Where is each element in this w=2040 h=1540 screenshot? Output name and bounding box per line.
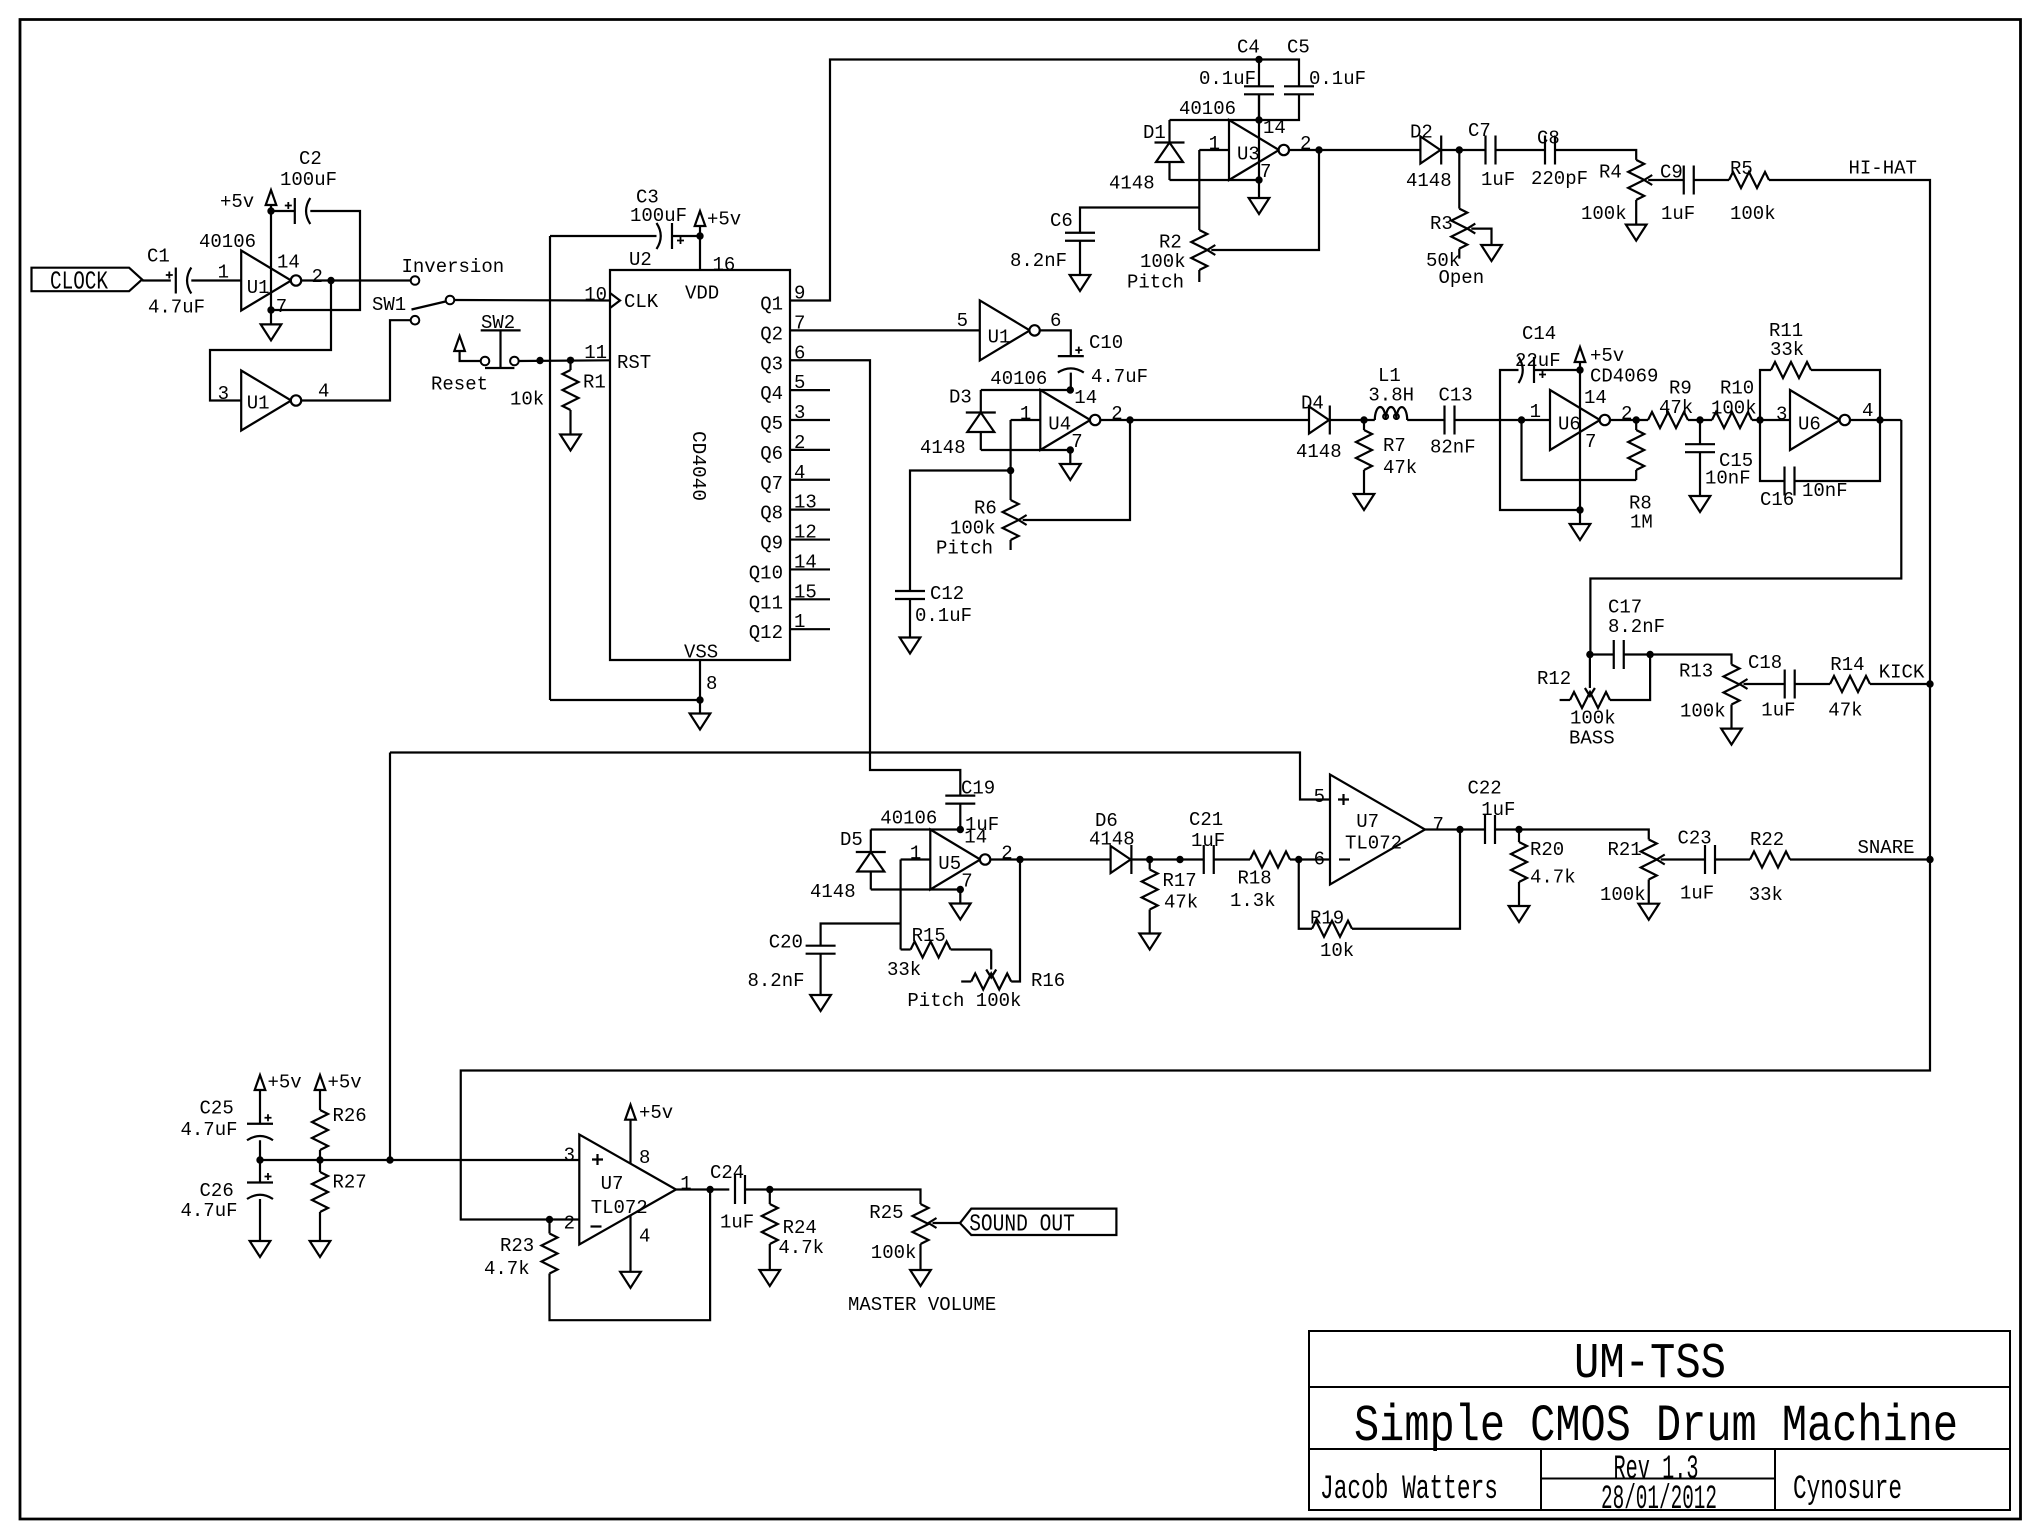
svg-text:CLOCK: CLOCK [50,267,108,297]
wire [210,281,331,401]
wire [550,699,700,701]
svg-text:C24: C24 [710,1162,744,1184]
junction [1146,856,1153,863]
resistor R9 [1648,378,1693,429]
capacitor C15 [1685,420,1753,496]
wire [746,1190,921,1205]
svg-text:47k: 47k [1383,457,1417,479]
wire [1694,179,1729,181]
wire [1290,858,1330,860]
svg-text:4: 4 [318,381,329,403]
svg-text:220pF: 220pF [1531,168,1588,190]
svg-text:100uF: 100uF [630,205,687,227]
svg-text:1uF: 1uF [1661,203,1695,225]
svg-text:47k: 47k [1164,892,1198,914]
svg-text:Q8: Q8 [760,503,783,525]
resistor R24 [762,1190,824,1260]
junction [1067,386,1074,393]
capacitor C8 [1531,128,1588,190]
junction [1926,856,1933,863]
svg-text:VSS: VSS [684,642,718,664]
svg-text:D3: D3 [949,387,972,409]
wire [790,538,830,540]
svg-text:CLK: CLK [624,291,659,313]
inverter U1 (pins 1-2) [199,231,323,318]
svg-text:4.7k: 4.7k [484,1258,530,1280]
ground [261,310,282,340]
junction [1696,416,1703,423]
svg-text:10k: 10k [510,389,544,411]
capacitor C24 [710,1162,754,1233]
wire [1688,419,1712,421]
svg-text:6: 6 [1314,849,1325,871]
svg-text:33k: 33k [1770,339,1804,361]
junction [546,1216,553,1223]
capacitor C23 [1678,828,1716,905]
svg-text:2: 2 [1001,843,1012,865]
svg-text:Simple CMOS Drum Machine: Simple CMOS Drum Machine [1354,1397,1958,1456]
svg-text:5: 5 [1314,786,1325,808]
potentiometer R3 [1426,150,1484,289]
svg-text:R10: R10 [1720,378,1754,400]
svg-text:SW1: SW1 [372,294,406,316]
capacitor C18 [1748,652,1796,722]
junction [766,1186,773,1193]
inverter U1 (pins 3-4) [218,371,330,431]
svg-text:HI-HAT: HI-HAT [1849,158,1917,180]
wire [1100,419,1309,421]
svg-text:7: 7 [276,296,287,318]
wire [1850,419,1901,421]
title text Simple CMOS Drum Machine [1354,1397,1958,1456]
ground [690,700,711,730]
junction [1456,826,1463,833]
junction [1007,467,1014,474]
resistor R27 [312,1160,367,1241]
resistor R8 [1628,420,1653,534]
svg-text:0.1uF: 0.1uF [1199,68,1256,90]
wire [260,1159,579,1161]
wire [1650,655,1731,665]
svg-text:C16: C16 [1760,489,1794,511]
svg-text:CD4069: CD4069 [1590,366,1658,388]
svg-text:R6: R6 [974,498,997,520]
diode D6 [1089,810,1135,874]
capacitor C12 [895,471,1011,638]
diode D4 [1296,393,1342,464]
svg-text:1uF: 1uF [1761,700,1795,722]
junction [1255,176,1262,183]
svg-text:BASS: BASS [1569,727,1615,749]
svg-text:6: 6 [1050,310,1061,332]
resistor R18 [1230,852,1290,913]
svg-text:C8: C8 [1537,128,1560,150]
wire [1534,369,1580,371]
svg-text:VDD: VDD [685,283,719,305]
potentiometer R21 [1600,839,1657,906]
resistor R23 [484,1190,710,1321]
ground [900,638,921,654]
svg-text:+5v: +5v [268,1072,302,1094]
net KICK [1879,662,1925,684]
svg-text:SNARE: SNARE [1858,837,1915,859]
CLOCK input flag [32,267,143,297]
svg-text:C5: C5 [1287,37,1310,59]
resistor R17 [1142,860,1199,920]
ground [1070,275,1091,291]
junction [1176,856,1183,863]
svg-text:4148: 4148 [1089,829,1135,851]
svg-text:0.1uF: 0.1uF [1309,68,1366,90]
svg-text:R14: R14 [1830,654,1864,676]
svg-text:1uF: 1uF [1481,799,1515,821]
svg-text:U5: U5 [938,853,961,875]
resistor R20 [1511,830,1576,893]
capacitor C6 [1010,208,1199,276]
inverter U5 with diode D5 [810,808,1013,904]
wire [1500,370,1580,510]
svg-text:C19: C19 [961,778,995,800]
wire [790,419,830,421]
svg-text:0.1uF: 0.1uF [915,605,972,627]
svg-text:R20: R20 [1530,839,1564,861]
svg-text:R19: R19 [1310,908,1344,930]
svg-text:4: 4 [1862,400,1873,422]
junction [1756,416,1763,423]
wire [699,236,701,270]
svg-text:100k: 100k [1711,398,1757,420]
ground [1060,450,1081,480]
wire [270,211,272,310]
svg-text:4148: 4148 [1296,441,1342,463]
title text UM-TSS [1574,1336,1726,1393]
capacitor C22 [1468,778,1516,844]
wiper arrow R3 [1467,224,1491,245]
resistor R10 [1711,378,1757,429]
wire [790,360,960,796]
svg-text:1.3k: 1.3k [1230,890,1276,912]
svg-text:+5v: +5v [220,191,254,213]
svg-text:R18: R18 [1238,868,1272,890]
junction [1456,146,1463,153]
svg-text:R23: R23 [500,1235,534,1257]
svg-text:U2: U2 [629,249,652,271]
wire [389,753,391,1161]
switch SW2 [431,312,521,396]
wire [390,753,1330,800]
junction [1295,856,1302,863]
wire [1259,60,1299,86]
svg-text:4.7k: 4.7k [778,1237,824,1259]
svg-text:Q4: Q4 [760,383,783,405]
capacitor C16 [1760,420,1880,511]
pin 3 label [1776,404,1787,426]
svg-text:Q12: Q12 [749,622,783,644]
svg-text:C14: C14 [1522,323,1556,345]
resistor R5 [1729,158,1776,225]
svg-text:Jacob Watters: Jacob Watters [1320,1471,1498,1509]
ground [560,421,581,451]
capacitor C13 [1430,384,1476,458]
svg-text:R1: R1 [583,372,606,394]
junction [1126,416,1133,423]
svg-text:+5v: +5v [707,209,741,231]
svg-text:100k: 100k [1140,251,1186,273]
wire [1009,420,1011,471]
wire [790,628,830,630]
wire [676,1188,729,1190]
svg-text:3.8H: 3.8H [1368,385,1414,407]
capacitor C19 [945,778,999,836]
svg-text:D4: D4 [1301,393,1324,415]
svg-text:22uF: 22uF [1515,350,1561,372]
junction [1576,506,1583,513]
wire [519,359,610,362]
IC U2 CD4040 [584,249,817,695]
junction [1315,146,1322,153]
svg-text:SOUND OUT: SOUND OUT [969,1211,1075,1238]
wire [790,568,830,570]
wire [699,660,701,700]
wire [790,60,1259,301]
svg-text:2: 2 [1111,403,1122,425]
node Inversion [402,256,505,285]
capacitor C14 [1515,323,1561,383]
junction [267,207,274,214]
svg-text:C13: C13 [1439,384,1473,406]
capacitor C20 [748,924,901,996]
svg-text:R13: R13 [1679,660,1713,682]
svg-text:4.7uF: 4.7uF [180,1200,237,1222]
svg-text:2: 2 [1300,133,1311,155]
wire [790,509,830,511]
wire [1610,419,1648,421]
wire [790,449,830,451]
wiper arrow R25 [929,1218,961,1228]
resistor R14 [1828,654,1870,721]
svg-text:14: 14 [1074,387,1097,409]
ground [810,995,831,1011]
svg-text:C10: C10 [1089,332,1123,354]
potentiometer R16 [907,860,1065,1013]
potentiometer R4 [1581,160,1644,225]
svg-text:4.7k: 4.7k [1530,867,1576,889]
svg-text:1uF: 1uF [1481,169,1515,191]
inductor L1 [1368,365,1414,420]
svg-text:33k: 33k [1749,884,1783,906]
svg-text:C4: C4 [1237,37,1260,59]
svg-text:33k: 33k [887,959,921,981]
svg-text:28/01/2012: 28/01/2012 [1601,1481,1717,1519]
wire [1131,858,1203,860]
junction [1360,416,1367,423]
svg-text:C26: C26 [200,1180,234,1202]
capacitor C9 [1660,161,1695,225]
svg-text:RST: RST [617,352,651,374]
svg-text:10: 10 [584,284,607,306]
+5v supply [625,1102,673,1164]
resistor R26 [312,1072,367,1161]
svg-text:100k: 100k [1680,701,1726,723]
wire [142,279,171,281]
ground [250,1241,271,1257]
ground [910,1256,931,1286]
+5v supply [220,190,276,213]
svg-text:R7: R7 [1383,435,1406,457]
svg-text:Cynosure: Cynosure [1793,1471,1902,1509]
ground [1509,892,1530,922]
svg-text:1: 1 [218,262,229,284]
potentiometer R12 [1537,655,1650,750]
wire [790,389,830,391]
svg-text:Q11: Q11 [749,592,783,614]
op-amp U7 (mixer, pins 1,2,3) [564,1135,692,1248]
junction [1518,416,1525,423]
resistor R7 [1356,420,1417,480]
inverter U6 (pins 1-2) [1530,387,1633,453]
svg-text:Q2: Q2 [760,323,783,345]
ground [1626,210,1647,241]
svg-text:10k: 10k [1320,940,1354,962]
wire [1590,420,1901,655]
svg-text:R4: R4 [1599,161,1622,183]
capacitor C2 [280,148,337,224]
resistor R11 [1760,320,1880,420]
svg-text:KICK: KICK [1879,662,1925,684]
svg-text:1uF: 1uF [1191,830,1225,852]
svg-text:U7: U7 [1356,811,1379,833]
ground [1721,715,1742,745]
svg-text:100k: 100k [950,518,996,540]
wire [1790,858,1930,860]
svg-text:40106: 40106 [880,808,937,830]
svg-text:5: 5 [957,310,968,332]
svg-text:D5: D5 [840,829,863,851]
svg-text:40106: 40106 [1179,98,1236,120]
svg-text:Q5: Q5 [760,413,783,435]
ground [1139,920,1160,950]
junction [1255,116,1262,123]
svg-text:2: 2 [1621,403,1632,425]
svg-text:UM-TSS: UM-TSS [1574,1336,1726,1393]
ground [1354,480,1375,510]
svg-text:C6: C6 [1050,210,1073,232]
svg-text:100uF: 100uF [280,169,337,191]
svg-text:47k: 47k [1659,397,1693,419]
ground [1570,510,1591,540]
capacitor C4 [1199,37,1274,121]
svg-text:C7: C7 [1468,120,1491,142]
svg-text:1: 1 [910,843,921,865]
svg-text:D2: D2 [1410,121,1433,143]
wire [1579,370,1581,510]
wire [301,279,411,281]
svg-text:4148: 4148 [920,437,966,459]
svg-text:U6: U6 [1558,414,1581,436]
wiper arrow R21 [1657,855,1705,865]
junction [696,696,703,703]
inverter U6 (pins 3-4) [1790,390,1873,450]
diode D2 [1406,121,1452,192]
svg-text:+5v: +5v [1590,345,1624,367]
svg-text:100k: 100k [1730,203,1776,225]
capacitor C1 [147,246,205,319]
wire [790,598,830,600]
svg-text:R24: R24 [783,1217,817,1239]
wire [1289,149,1421,151]
wire [1258,95,1260,180]
svg-text:Reset: Reset [431,374,488,396]
svg-text:7: 7 [1433,814,1444,836]
op-amp U7 (snare, pins 5,6,7) [1314,775,1444,885]
junction [1016,856,1023,863]
wire [1455,419,1551,421]
inverter U3 with diode D1 [1109,98,1311,195]
svg-text:40106: 40106 [199,231,256,253]
svg-text:C18: C18 [1748,652,1782,674]
svg-text:3: 3 [1776,404,1787,426]
svg-text:14: 14 [964,827,987,849]
svg-text:MASTER VOLUME: MASTER VOLUME [848,1294,996,1316]
title date [1601,1481,1717,1519]
switch SW1 [372,294,454,325]
svg-text:Q9: Q9 [760,533,783,555]
wire [1555,150,1636,160]
svg-text:Pitch: Pitch [936,538,993,560]
svg-text:2: 2 [312,266,323,288]
wire [550,235,657,237]
svg-text:14: 14 [1584,387,1607,409]
wire [1870,683,1930,685]
wiper arrow R16 [986,950,996,978]
potentiometer R13 [1679,660,1740,722]
svg-text:R22: R22 [1750,829,1784,851]
svg-text:1uF: 1uF [1680,883,1714,905]
svg-text:C12: C12 [930,583,964,605]
svg-text:4148: 4148 [810,881,856,903]
wire [672,235,700,237]
wire [271,211,360,310]
svg-text:R15: R15 [912,925,946,947]
svg-text:D1: D1 [1143,122,1166,144]
svg-text:C23: C23 [1678,828,1712,850]
junction [1515,826,1522,833]
svg-text:8.2nF: 8.2nF [1608,616,1665,638]
wire [1495,830,1649,840]
resistor R22 [1749,829,1790,906]
resistor R19 [1299,830,1460,963]
svg-text:3: 3 [564,1144,575,1166]
junction [267,306,274,313]
svg-text:40106: 40106 [990,368,1047,390]
junction [1067,446,1074,453]
ground [1638,890,1659,920]
svg-text:U6: U6 [1798,414,1821,436]
junction [957,826,964,833]
wiper arrow R2 [1207,245,1215,255]
wire [1211,150,1319,250]
junction [1633,416,1640,423]
svg-text:7: 7 [1585,431,1596,453]
wire [461,180,1930,1220]
svg-text:R17: R17 [1163,870,1197,892]
svg-text:16: 16 [713,254,736,276]
wire [1330,419,1375,421]
svg-text:Pitch: Pitch [1127,272,1184,294]
svg-text:100k: 100k [1581,203,1627,225]
inverter U1 (pins 5-6) [957,300,1062,360]
wire [990,858,1111,860]
